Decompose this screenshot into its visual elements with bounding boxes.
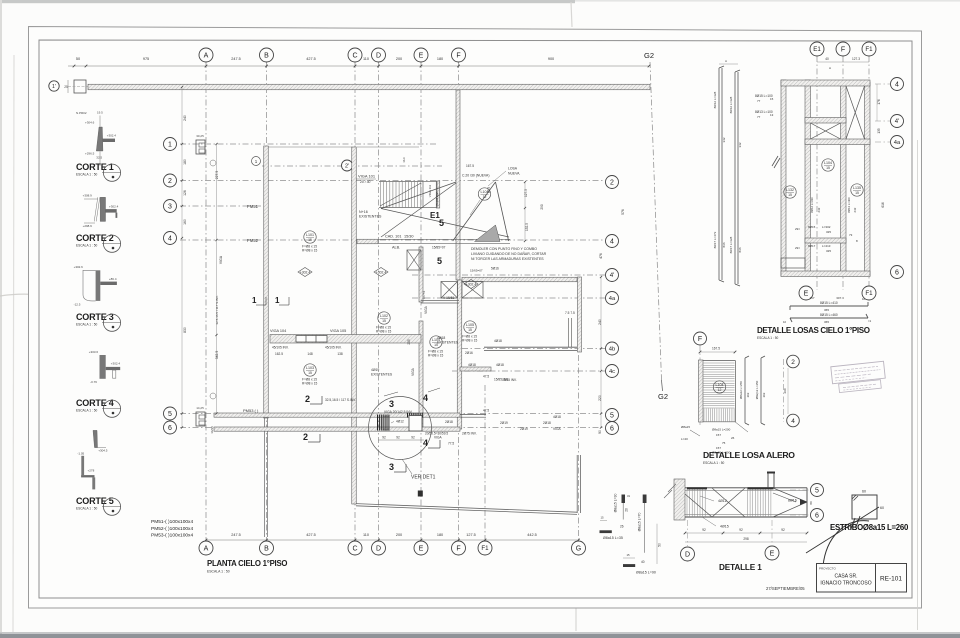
detail ladder left leg	[781, 80, 786, 276]
detail row dash 4prime	[875, 120, 890, 122]
detail ladder top band	[781, 80, 870, 86]
svg-text:A: A	[204, 546, 209, 553]
svg-text:CORTE 4: CORTE 4	[76, 398, 114, 408]
stair cut diagonal	[380, 183, 421, 206]
svg-text:32.5-16.5 / 117 S.INV.: 32.5-16.5 / 117 S.INV.	[215, 295, 219, 324]
svg-text:5: 5	[168, 411, 172, 418]
stirrups cluster left in detail circle	[377, 415, 379, 431]
detail ladder strip E1	[805, 80, 811, 276]
svg-text:-12.5: -12.5	[74, 303, 81, 307]
grid bubble A top	[199, 48, 213, 62]
svg-text:+296.5: +296.5	[85, 152, 95, 156]
detail top dims	[817, 61, 869, 63]
svg-text:2Ø19: 2Ø19	[500, 421, 508, 425]
svg-text:15: 15	[770, 97, 774, 101]
fold crease bottom vertical	[575, 608, 577, 631]
level diamond 302.4 mid	[374, 268, 388, 277]
svg-text:VIGA 105: VIGA 105	[330, 329, 346, 333]
right row bubble 4c	[606, 365, 619, 378]
demolition triangle	[453, 182, 496, 241]
det1 right fan arrow	[773, 488, 807, 502]
svg-text:20: 20	[625, 508, 629, 512]
svg-text:+302.4: +302.4	[300, 270, 311, 274]
top perimeter wall	[88, 84, 650, 90]
beam row 6	[214, 427, 460, 431]
right row bubble 6	[606, 422, 619, 435]
svg-text:126: 126	[183, 190, 187, 196]
row line 5	[180, 413, 605, 415]
svg-text:127.3: 127.3	[852, 57, 860, 61]
left row bubble 4	[164, 232, 177, 245]
svg-text:15: 15	[308, 371, 312, 375]
svg-text:4Ø19: 4Ø19	[371, 368, 379, 372]
svg-text:CORTE 3: CORTE 3	[76, 312, 114, 322]
G2 leader arrow	[662, 380, 663, 391]
svg-text:EXISTENTES: EXISTENTES	[371, 373, 393, 377]
svg-text:ESCALA 1 : 50: ESCALA 1 : 50	[703, 461, 724, 465]
svg-text:VIGA: VIGA	[434, 436, 442, 440]
detail slab circle L132	[784, 186, 796, 198]
svg-text:127.5: 127.5	[524, 189, 528, 197]
svg-text:50: 50	[76, 57, 80, 61]
grid bubble A bottom	[199, 541, 213, 555]
svg-text:220: 220	[598, 395, 602, 401]
svg-text:47.5: 47.5	[483, 409, 489, 413]
row line 3	[180, 205, 268, 207]
legend bar L35	[600, 530, 612, 533]
right row bubble 4b	[606, 342, 619, 355]
wall grid E segment lower	[419, 321, 423, 428]
svg-text:900: 900	[548, 57, 554, 61]
alero right dim 290	[787, 368, 789, 414]
svg-text:DETALLE LOSA ALERO: DETALLE LOSA ALERO	[703, 450, 795, 460]
demolition triangle shading	[475, 225, 501, 242]
grid bubble 1prime left	[49, 81, 59, 91]
level diamond 302.4 right	[464, 280, 478, 289]
scan left edge strip	[0, 0, 2, 638]
signature ticks	[851, 518, 855, 529]
det1 stirrups dark caps	[687, 487, 707, 489]
svg-text:=1: =1	[868, 319, 872, 323]
svg-text:VIGA: VIGA	[411, 367, 415, 375]
svg-text:2': 2'	[345, 163, 349, 169]
svg-text:26: 26	[731, 436, 735, 440]
svg-text:E: E	[770, 551, 775, 558]
svg-text:10: 10	[862, 297, 866, 301]
svg-text:+302.6: +302.6	[74, 265, 84, 269]
wall on grid F upper	[456, 90, 460, 280]
svg-text:VIGA: VIGA	[219, 255, 223, 264]
x-brace panel on wall E upper	[407, 250, 421, 270]
svg-text:L=302: L=302	[822, 225, 831, 229]
row line 4b	[462, 348, 605, 350]
svg-text:92: 92	[382, 435, 386, 439]
svg-text:92: 92	[781, 528, 785, 532]
svg-text:975: 975	[143, 57, 149, 61]
svg-text:442.5: 442.5	[527, 533, 537, 537]
svg-text:325: 325	[826, 249, 831, 253]
detail bubble E1 top	[810, 42, 824, 56]
legend bar L70 vertical	[643, 495, 647, 504]
svg-text:180: 180	[437, 533, 443, 537]
wall on grid C upper	[352, 147, 357, 504]
svg-text:+278: +278	[88, 468, 95, 472]
left row bubble 1	[164, 138, 177, 151]
svg-text:B: B	[264, 546, 269, 553]
alero slab comb vertical bottom	[703, 409, 705, 422]
detail circle dims 92	[378, 439, 424, 441]
svg-text:F: F	[456, 53, 460, 60]
svg-text:A: A	[829, 66, 831, 70]
right row bubble 2	[606, 176, 619, 189]
svg-text:40: 40	[825, 57, 829, 61]
small circle P tag upper	[210, 160, 216, 166]
det1 left break	[668, 484, 676, 492]
svg-text:L=40: L=40	[681, 437, 688, 441]
svg-text:+304.6: +304.6	[85, 121, 95, 125]
svg-text:365: 365	[824, 308, 829, 312]
svg-text:576: 576	[621, 209, 625, 215]
svg-text:E: E	[419, 546, 424, 553]
svg-text:4: 4	[423, 438, 428, 448]
svg-text:6: 6	[168, 425, 172, 432]
svg-text:15: 15	[788, 193, 792, 197]
svg-text:127.5: 127.5	[466, 533, 476, 537]
alero slab circle L104	[713, 381, 725, 393]
svg-text:138: 138	[337, 352, 343, 356]
svg-text:PM51: PM51	[247, 204, 259, 209]
beam viga 104-105	[270, 335, 421, 344]
svg-text:60: 60	[880, 506, 884, 510]
svg-text:A: A	[204, 53, 209, 60]
grid line G	[578, 355, 580, 541]
svg-text:31: 31	[627, 494, 631, 498]
svg-text:G2: G2	[658, 392, 668, 401]
svg-text:F: F	[841, 47, 845, 54]
svg-text:16.6: 16.6	[402, 157, 406, 163]
eave line bottom right	[356, 504, 577, 513]
svg-text:135: 135	[877, 128, 881, 134]
svg-text:240: 240	[598, 319, 602, 325]
svg-text:6: 6	[610, 426, 614, 433]
svg-text:2Ø16: 2Ø16	[465, 351, 473, 355]
svg-text:836: 836	[738, 247, 742, 252]
grid bubble F top	[452, 48, 466, 62]
alero slab comb horizontal	[703, 360, 736, 362]
legend bar L30 vertical	[622, 495, 626, 504]
svg-text:4Ø18: 4Ø18	[468, 363, 476, 367]
right room east wall G	[578, 277, 582, 352]
row line 4	[180, 239, 605, 241]
bottom dimension line	[206, 539, 579, 541]
svg-text:8Ø13 L=400: 8Ø13 L=400	[847, 197, 851, 213]
svg-text:830: 830	[183, 327, 187, 333]
svg-text:Ø8a15 L=90: Ø8a15 L=90	[636, 571, 656, 575]
svg-text:167.5: 167.5	[466, 164, 474, 168]
svg-text:365: 365	[824, 320, 829, 324]
box in detail circle	[409, 416, 422, 432]
svg-text:3: 3	[389, 399, 394, 409]
signature arc	[823, 521, 869, 566]
right room top wall	[462, 277, 577, 282]
svg-text:A: A	[725, 59, 727, 63]
svg-text:E: E	[804, 291, 809, 298]
svg-text:E1: E1	[813, 46, 821, 53]
svg-text:L132: L132	[786, 188, 794, 192]
svg-text:476: 476	[599, 253, 603, 259]
svg-text:LOSA: LOSA	[508, 167, 518, 171]
detail row dash 4a	[875, 141, 890, 143]
svg-text:DETALLE 1: DETALLE 1	[719, 563, 762, 572]
svg-text:4': 4'	[610, 272, 615, 279]
stirrups cluster right in detail circle	[407, 413, 409, 418]
grid line D	[378, 62, 380, 541]
svg-text:342.5: 342.5	[215, 351, 219, 360]
svg-text:45/105 INV.: 45/105 INV.	[325, 346, 342, 350]
svg-text:E: E	[419, 53, 424, 60]
svg-text:5: 5	[815, 488, 819, 495]
detail bubble 4a right	[891, 136, 904, 149]
grid bubble D bottom	[372, 541, 386, 555]
svg-text:4Ø12: 4Ø12	[718, 499, 727, 503]
svg-text:2Ø19: 2Ø19	[520, 427, 528, 431]
svg-text:60: 60	[862, 490, 866, 494]
bottom rebar sketch 1	[790, 305, 868, 307]
beam boxes in viga 104	[296, 336, 327, 343]
svg-text:342: 342	[722, 137, 726, 142]
wall grid E segment upper	[419, 247, 423, 302]
svg-text:15: 15	[826, 166, 830, 170]
svg-text:PLANTA CIELO 1°PISO: PLANTA CIELO 1°PISO	[207, 559, 287, 568]
svg-text:L101: L101	[306, 233, 314, 237]
v15/51 beam	[421, 300, 459, 302]
svg-text:7.5 7.5: 7.5 7.5	[565, 311, 575, 315]
svg-text:V 15/51: V 15/51	[443, 296, 455, 300]
det1 bubble D	[687, 520, 689, 546]
svg-text:4: 4	[610, 239, 614, 246]
svg-text:5Ø16: 5Ø16	[491, 267, 499, 271]
fold crease left	[0, 294, 170, 297]
svg-text:L102: L102	[380, 314, 388, 318]
svg-text:632: 632	[853, 207, 857, 212]
svg-text:F1: F1	[865, 290, 873, 297]
svg-text:29=: 29=	[795, 227, 800, 231]
left row bubble 6	[164, 421, 177, 434]
svg-text:92: 92	[739, 528, 743, 532]
svg-text:EXISTENTES: EXISTENTES	[437, 341, 459, 345]
scan left paper edge line	[13, 55, 14, 632]
detail break mark	[774, 158, 780, 168]
svg-text:C.20 /30 (NUEVA): C.20 /30 (NUEVA)	[462, 174, 489, 178]
detail slab circle L104	[822, 159, 834, 171]
alero bubble 4	[787, 414, 800, 427]
svg-text:200: 200	[396, 533, 402, 537]
detail bubble F1 bottom	[862, 286, 876, 300]
svg-text:290: 290	[783, 388, 787, 393]
svg-text:292: 292	[762, 392, 766, 397]
svg-text:Ø8a15 L=70: Ø8a15 L=70	[638, 513, 642, 532]
svg-text:73: 73	[849, 233, 853, 237]
det1 bubble 6	[790, 514, 810, 516]
slab circle L104 stair	[478, 188, 490, 200]
svg-text:F: F	[698, 336, 702, 343]
svg-text:2: 2	[610, 180, 614, 187]
detail bubble E bottom	[799, 286, 813, 300]
svg-text:4a: 4a	[609, 296, 616, 302]
stair landing	[423, 182, 437, 208]
svg-text:75: 75	[722, 441, 726, 445]
svg-text:VIGA 20/142.5 INV.: VIGA 20/142.5 INV.	[384, 410, 413, 414]
svg-text:29=: 29=	[795, 246, 800, 250]
svg-text:2: 2	[791, 359, 795, 366]
row line 1	[180, 143, 438, 145]
svg-text:40: 40	[641, 560, 645, 564]
svg-text:4Ø18: 4Ø18	[437, 336, 445, 340]
svg-text:92: 92	[702, 528, 706, 532]
svg-text:15: 15	[382, 319, 386, 323]
svg-text:836: 836	[722, 242, 726, 247]
fold crease top vertical	[571, 2, 572, 27]
svg-text:290: 290	[540, 204, 544, 210]
detail grid E1	[816, 56, 818, 290]
svg-text:2Ø75 INV.: 2Ø75 INV.	[462, 432, 477, 436]
svg-text:10: 10	[783, 320, 787, 324]
svg-text:27/SEPTIEMBRE/05: 27/SEPTIEMBRE/05	[766, 586, 805, 591]
svg-text:15/85=07: 15/85=07	[432, 246, 446, 250]
svg-text:325: 325	[826, 230, 831, 234]
svg-text:15: 15	[468, 328, 472, 332]
svg-text:14/35: 14/35	[210, 426, 214, 434]
svg-text:EXISTENTES: EXISTENTES	[359, 215, 382, 219]
alero grid F dash	[699, 345, 701, 425]
row line 4c	[452, 370, 605, 372]
svg-text:N.PR02: N.PR02	[76, 111, 87, 115]
detail bubble F top	[836, 42, 850, 56]
svg-text:92: 92	[396, 435, 400, 439]
svg-text:4b: 4b	[609, 347, 615, 353]
svg-text:8Ø17 L=473: 8Ø17 L=473	[713, 231, 717, 248]
interior top edge line	[268, 146, 352, 148]
left row bubble 3	[164, 200, 177, 213]
svg-text:R=Ø8 x 15: R=Ø8 x 15	[462, 339, 478, 343]
svg-text:G: G	[576, 546, 581, 553]
svg-text:PM52: PM52	[247, 238, 259, 243]
svg-text:307.3: 307.3	[836, 296, 844, 300]
det1 stirrup comb left	[686, 488, 688, 517]
svg-text:4: 4	[423, 393, 428, 403]
svg-text:CORTE 5: CORTE 5	[76, 496, 114, 506]
svg-text:2Ø18: 2Ø18	[543, 421, 551, 425]
grid bubble D top	[372, 48, 386, 62]
svg-text:110: 110	[363, 533, 369, 537]
grid bubble F bottom	[452, 541, 466, 555]
svg-text:DEMOLER CON PUNTO FINO Y COMBO: DEMOLER CON PUNTO FINO Y COMBO	[471, 247, 537, 251]
legend bar L90	[623, 564, 635, 567]
detail row dash 4	[875, 83, 890, 85]
right row bubble 4a	[606, 292, 619, 305]
detail bubble 4prime right	[891, 115, 904, 128]
signature line	[806, 507, 879, 553]
svg-text:15/65=07: 15/65=07	[470, 269, 483, 273]
inner border frame	[39, 40, 912, 598]
slab circle L103	[304, 364, 316, 376]
svg-text:Ø8a15: Ø8a15	[681, 425, 690, 429]
svg-text:Ø8a12 L=250: Ø8a12 L=250	[739, 381, 743, 399]
detail ladder band 4prime	[805, 118, 846, 124]
svg-text:CORTE 1: CORTE 1	[76, 162, 114, 172]
svg-text:PROYECTO: PROYECTO	[819, 567, 836, 571]
svg-text:C: C	[352, 546, 357, 553]
detail bubble 6 right	[891, 266, 904, 279]
svg-text:Ø8a15 L=30: Ø8a15 L=30	[614, 494, 618, 513]
svg-text:D: D	[376, 53, 381, 60]
row line 4prime	[412, 274, 605, 276]
detail grid F	[842, 56, 844, 290]
right row bubble 5	[606, 409, 619, 422]
stair dim line x525	[524, 182, 526, 241]
svg-text:CAD. 101: CAD. 101	[385, 235, 401, 239]
svg-text:15: 15	[308, 238, 312, 242]
grid bubble F1 bottom	[478, 541, 492, 555]
svg-text:Ø8a(12 L=250: Ø8a(12 L=250	[755, 380, 759, 399]
svg-text:4: 4	[791, 418, 795, 425]
det1 inner lines	[685, 490, 807, 492]
right dim line x601	[600, 277, 602, 428]
svg-text:15: 15	[855, 191, 859, 195]
wall grid F mid	[457, 280, 462, 429]
detail ladder strip F	[841, 82, 847, 276]
cross brace over stair zone	[381, 182, 456, 209]
corte 3 section glyph	[83, 270, 96, 301]
slab circle L105	[464, 321, 476, 333]
detail bubble 4 right	[891, 78, 904, 91]
detail slab circle L135	[851, 184, 863, 196]
svg-text:4': 4'	[895, 119, 899, 125]
svg-text:F1: F1	[481, 545, 489, 552]
svg-text:8Ø12 L=328: 8Ø12 L=328	[729, 96, 733, 113]
small bubble 1 interior	[252, 157, 261, 166]
svg-text:NI TORCER LAS ARMADURAS EXISTE: NI TORCER LAS ARMADURAS EXISTENTES	[471, 257, 544, 261]
column node blob on E	[418, 491, 423, 497]
svg-text:-0.76: -0.76	[90, 380, 97, 384]
svg-text:PM52-( )100x100x4: PM52-( )100x100x4	[151, 526, 193, 532]
svg-text:Ø8a15 L=200: Ø8a15 L=200	[712, 428, 731, 432]
svg-text:ESCALA 1 : 50: ESCALA 1 : 50	[76, 507, 97, 511]
svg-text:ESCALA 1 : 50: ESCALA 1 : 50	[76, 173, 97, 177]
svg-text:14,25: 14,25	[196, 406, 204, 410]
svg-text:247.5: 247.5	[231, 533, 241, 537]
eave east vertical	[576, 455, 578, 513]
scan bottom gray strip	[0, 634, 960, 638]
svg-text:45/105 INV.: 45/105 INV.	[272, 346, 289, 350]
svg-text:1: 1	[252, 296, 257, 305]
alero left wall strip	[699, 360, 704, 422]
detail grid F1	[868, 56, 870, 290]
svg-text:77: 77	[757, 115, 761, 119]
beam 15/85 at 4c	[460, 367, 491, 371]
corte 4 section glyph	[100, 355, 106, 379]
svg-text:+302.4: +302.4	[111, 362, 121, 366]
left row bubble 5	[164, 407, 177, 420]
svg-text:ESCALA 1 : 50: ESCALA 1 : 50	[76, 244, 97, 248]
detail ladder bottom band	[781, 271, 870, 277]
svg-text:CORTE 2: CORTE 2	[76, 233, 114, 243]
det1 left hatched block	[674, 479, 685, 520]
svg-text:4c: 4c	[609, 369, 615, 375]
svg-text:VIGA 104: VIGA 104	[270, 329, 286, 333]
svg-text:VER DET1: VER DET1	[411, 475, 436, 481]
grid bubble E bottom	[414, 541, 428, 555]
